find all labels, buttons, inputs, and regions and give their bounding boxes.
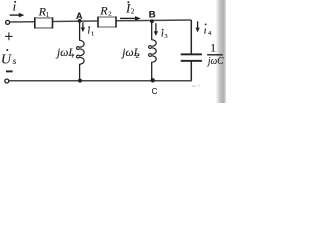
node B label	[149, 9, 156, 20]
svg-text:R: R	[99, 4, 108, 18]
svg-text:ı: ı	[13, 0, 17, 14]
current arrow I (input)	[10, 13, 25, 18]
terminal top-left	[6, 20, 10, 24]
current label I3	[161, 28, 168, 40]
inductor L1 coil	[77, 40, 85, 64]
source label Us	[1, 49, 17, 68]
wire branch A vertical upper segment	[79, 21, 81, 41]
wire branch A vertical lower segment	[79, 64, 81, 81]
terminal bottom-left	[5, 79, 9, 83]
inductor L2 coil	[149, 40, 157, 63]
svg-text:ı: ı	[204, 24, 207, 36]
svg-text:2: 2	[131, 8, 135, 16]
svg-text:ı: ı	[87, 25, 90, 37]
capacitor C top plate	[181, 53, 202, 55]
svg-text:C: C	[152, 87, 158, 96]
junction dot at bottom of L2 (node C)	[151, 78, 155, 82]
svg-text:1: 1	[91, 31, 94, 38]
svg-text:3: 3	[164, 33, 167, 40]
current arrow I2	[120, 16, 141, 21]
current label I dot	[13, 0, 17, 14]
wire bottom horizontal from left terminal to right branch	[9, 80, 192, 82]
current label I4	[204, 24, 212, 38]
svg-text:A: A	[76, 11, 83, 21]
current arrow I1	[81, 22, 85, 32]
node C label	[152, 87, 158, 96]
source polarity plus sign	[5, 32, 13, 40]
wire branch B vertical upper segment	[151, 21, 153, 40]
svg-text:2: 2	[108, 10, 111, 17]
capacitor value label 1/(jwC) fraction	[206, 40, 224, 67]
scan speckles near bottom	[192, 85, 201, 87]
resistor R2 label	[99, 4, 111, 18]
node B junction dot	[150, 19, 154, 23]
current arrow I4	[196, 21, 200, 32]
wire right vertical from corner down to capacitor top plate	[190, 20, 192, 54]
current arrow I3	[154, 23, 158, 36]
inductor L2 value label jwL2	[120, 47, 140, 60]
svg-text:U: U	[1, 53, 12, 68]
svg-text:1: 1	[46, 12, 49, 19]
resistor R1 label	[38, 4, 50, 19]
wire top horizontal from left terminal through A and B to top-right corner	[10, 20, 192, 22]
resistor R1	[34, 17, 53, 28]
node A junction dot	[78, 19, 82, 23]
node A label	[76, 11, 83, 21]
wire right vertical from capacitor bottom plate to bottom wire	[190, 62, 192, 81]
current label I1	[87, 25, 94, 38]
wire branch B vertical lower segment	[151, 62, 153, 81]
svg-text:B: B	[149, 9, 156, 20]
current label I2	[125, 1, 135, 16]
resistor R2	[97, 17, 116, 28]
junction dot at bottom of L1	[78, 79, 82, 83]
svg-text:1: 1	[71, 53, 74, 60]
svg-text:jωC: jωC	[206, 56, 224, 67]
source polarity minus sign	[6, 70, 13, 72]
svg-text:s: s	[13, 57, 17, 67]
inductor L1 value label jwL1	[55, 47, 75, 60]
svg-text:2: 2	[135, 51, 139, 60]
svg-text:1: 1	[210, 40, 216, 54]
capacitor C bottom plate	[181, 60, 202, 62]
